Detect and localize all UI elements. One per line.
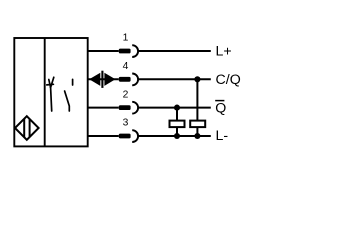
svg-text:4: 4	[123, 61, 129, 72]
wire pin4 stub	[88, 78, 119, 80]
load resistor 1	[170, 121, 185, 128]
wire load 2 to L-	[196, 127, 198, 136]
svg-text:2: 2	[123, 89, 129, 100]
wire pin3 stub	[88, 135, 119, 137]
connector pin 3 arc	[132, 130, 138, 142]
wire L-	[138, 135, 211, 137]
junction dot C/Q	[194, 76, 200, 82]
load resistor 2	[190, 121, 205, 128]
NO contact (right switch)	[65, 79, 73, 111]
junction dot L- right	[194, 133, 200, 139]
sensor body outline	[14, 38, 87, 146]
junction dot L- left	[174, 133, 180, 139]
connector pin 4 arc	[132, 74, 138, 86]
proximity sensor symbol (diamond)	[15, 116, 39, 140]
wire Qbar to load 1	[176, 108, 178, 121]
svg-text:1: 1	[123, 32, 129, 43]
svg-text:L-: L-	[216, 128, 229, 144]
connector pin 2 pill	[119, 105, 131, 110]
wire pin2 stub	[88, 107, 119, 109]
svg-text:3: 3	[123, 118, 129, 129]
wire pin1 stub	[88, 50, 119, 52]
connector pin 4 pill	[119, 77, 131, 82]
wire Qbar	[138, 107, 211, 109]
NC contact (left switch)	[47, 77, 54, 111]
bidirectional arrow symbol (IO-Link C/Q)	[89, 71, 115, 88]
wire C/Q	[138, 78, 211, 80]
svg-text:C/Q: C/Q	[216, 72, 241, 88]
connector pin 1 arc	[132, 45, 138, 57]
connector pin 2 arc	[132, 102, 138, 114]
svg-text:Q: Q	[215, 101, 226, 117]
svg-text:L+: L+	[216, 44, 232, 60]
connector pin 3 pill	[119, 134, 131, 139]
wire L+	[138, 50, 211, 52]
connector pin 1 pill	[119, 49, 131, 54]
wire C/Q to load 2	[196, 79, 198, 120]
junction dot Qbar	[174, 105, 180, 111]
sensor body divider	[44, 38, 46, 146]
wire load 1 to L-	[176, 127, 178, 136]
